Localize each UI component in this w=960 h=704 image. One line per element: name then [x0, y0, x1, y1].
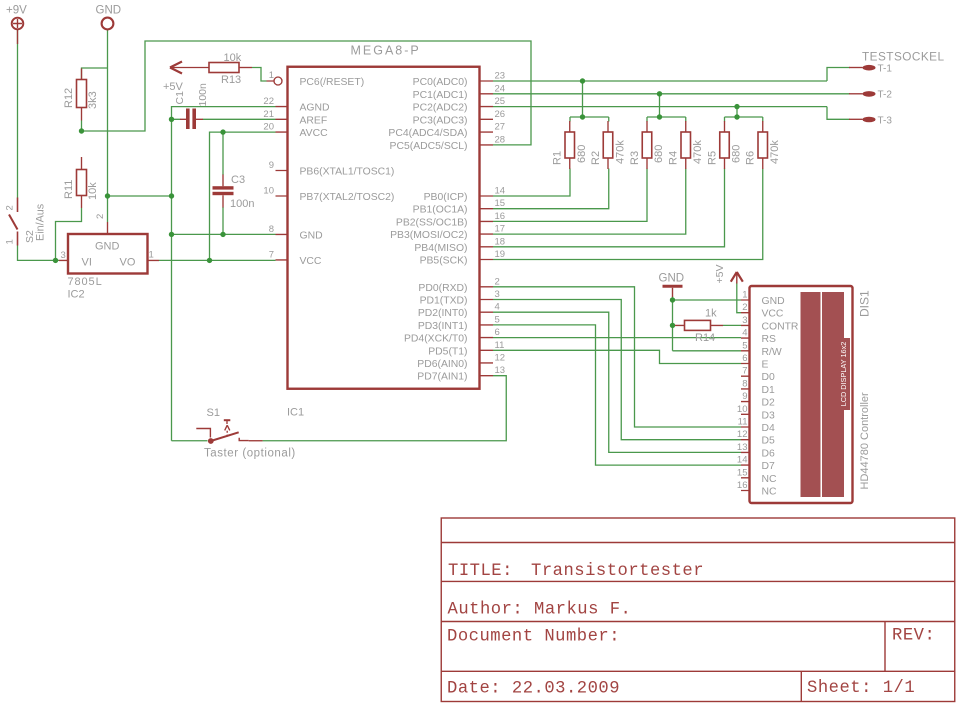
svg-text:3: 3	[61, 250, 66, 261]
svg-text:PC0(ADC0): PC0(ADC0)	[413, 77, 468, 88]
junction LCD GND R14	[670, 323, 675, 328]
wire net PD7 to S1	[263, 376, 507, 441]
svg-text:10: 10	[737, 404, 748, 415]
svg-text:1: 1	[269, 70, 274, 81]
svg-text:PD6(AIN0): PD6(AIN0)	[417, 359, 467, 370]
svg-text:TESTSOCKEL: TESTSOCKEL	[862, 50, 945, 64]
svg-text:Sheet: 1/1: Sheet: 1/1	[807, 679, 915, 698]
svg-text:PC4(ADC4/SDA): PC4(ADC4/SDA)	[388, 128, 467, 139]
wire C3 top to AVCC	[222, 132, 224, 175]
junction R5R6 top	[734, 114, 739, 119]
wire net PC0 T-1 with R1 R2 tops	[493, 68, 850, 209]
capacitor C1 100n	[186, 109, 196, 130]
svg-text:5: 5	[495, 314, 500, 325]
svg-text:21: 21	[263, 109, 274, 120]
svg-text:D1: D1	[762, 385, 776, 396]
svg-text:PD7(AIN1): PD7(AIN1)	[417, 372, 467, 383]
svg-text:VI: VI	[82, 257, 92, 269]
svg-text:26: 26	[495, 109, 506, 120]
svg-text:T-3: T-3	[878, 115, 893, 126]
wire net GND branch to x171	[108, 195, 172, 197]
svg-text:VCC: VCC	[762, 309, 784, 320]
resistor R1	[565, 121, 575, 169]
wire net GND vertical x171 down to S1	[172, 119, 208, 440]
svg-text:RS: RS	[762, 334, 777, 345]
svg-text:19: 19	[495, 249, 506, 260]
svg-text:CONTR: CONTR	[762, 321, 799, 332]
svg-text:DIS1: DIS1	[858, 290, 872, 317]
svg-text:24: 24	[495, 83, 506, 94]
svg-text:AVCC: AVCC	[300, 128, 329, 139]
junction AVCC on +5V rail	[207, 258, 212, 263]
svg-text:REV:: REV:	[892, 627, 935, 646]
svg-text:NC: NC	[762, 487, 778, 498]
svg-text:11: 11	[495, 340, 505, 351]
svg-text:13: 13	[495, 365, 506, 376]
svg-text:7: 7	[269, 249, 274, 260]
svg-text:10k: 10k	[87, 182, 99, 200]
svg-text:4: 4	[742, 328, 747, 339]
svg-text:R11: R11	[63, 180, 75, 199]
IC1 right pin stubs	[480, 81, 494, 376]
junction LCD GND pin1	[670, 297, 675, 302]
junction GND rail C3	[220, 232, 225, 237]
svg-text:R4: R4	[668, 151, 680, 165]
WIRES (green nets)	[18, 30, 851, 465]
svg-text:2: 2	[742, 302, 747, 313]
svg-text:16: 16	[737, 480, 748, 491]
wire net +5V AVCC branch	[159, 132, 276, 260]
resistor R2	[603, 121, 613, 169]
wire net AREF from cap C1 to IC	[203, 118, 276, 120]
svg-text:3k3: 3k3	[87, 91, 99, 109]
svg-text:7805L: 7805L	[68, 276, 103, 288]
junction PC1 wire v2	[657, 91, 662, 96]
resistor R6	[758, 121, 768, 169]
junction PC0 wire v1	[580, 78, 585, 83]
svg-text:GND: GND	[762, 296, 785, 307]
svg-text:18: 18	[495, 236, 506, 247]
IC1 left pin names	[300, 77, 395, 267]
svg-text:PC1(ADC1): PC1(ADC1)	[413, 90, 468, 101]
LCD display DIS1 box	[750, 286, 853, 503]
svg-text:PD3(INT1): PD3(INT1)	[418, 321, 468, 332]
pad T-3	[863, 117, 876, 123]
resistor R5	[720, 121, 730, 169]
svg-text:PC2(ADC2): PC2(ADC2)	[413, 103, 468, 114]
svg-text:680: 680	[576, 145, 588, 163]
capacitor C3 100n	[213, 186, 234, 195]
wire net PD1 to LCD D5	[493, 300, 741, 440]
svg-text:IC1: IC1	[287, 407, 304, 419]
wire net +9V vertical	[17, 30, 19, 198]
svg-text:MEGA8-P: MEGA8-P	[351, 44, 421, 58]
resistor R13	[209, 63, 252, 73]
svg-text:PC3(ADC3): PC3(ADC3)	[413, 115, 468, 126]
svg-text:AGND: AGND	[300, 103, 330, 114]
IC1 right pin numbers	[495, 71, 506, 377]
svg-text:23: 23	[495, 71, 506, 82]
svg-text:D6: D6	[762, 448, 776, 459]
svg-text:R5: R5	[707, 151, 719, 165]
svg-text:NC: NC	[762, 474, 778, 485]
svg-text:1: 1	[742, 290, 747, 301]
svg-text:T-1: T-1	[878, 64, 893, 75]
svg-text:10: 10	[263, 186, 274, 197]
LCD pin names	[762, 296, 799, 498]
svg-text:PB4(MISO): PB4(MISO)	[414, 243, 467, 254]
switch S2	[9, 198, 18, 246]
svg-text:2: 2	[5, 205, 16, 210]
svg-text:Author: Markus F.: Author: Markus F.	[448, 601, 632, 620]
junction AVCC/C3	[220, 129, 225, 134]
svg-text:PB1(OC1A): PB1(OC1A)	[413, 205, 468, 216]
junction S2/R11/VI	[53, 258, 58, 263]
svg-text:8: 8	[269, 224, 274, 235]
svg-text:1k: 1k	[705, 308, 717, 320]
svg-text:R6: R6	[745, 151, 757, 165]
svg-text:C3: C3	[231, 174, 245, 186]
resistor R14	[675, 320, 723, 330]
svg-text:680: 680	[653, 145, 665, 163]
svg-text:17: 17	[495, 224, 506, 235]
resistor R11	[77, 157, 87, 208]
svg-text:Transistortester: Transistortester	[531, 562, 704, 581]
IC1 left pin stubs	[267, 77, 288, 260]
svg-text:PD5(T1): PD5(T1)	[428, 346, 467, 357]
wire net GND at LCD	[673, 297, 742, 351]
svg-text:PB5(SCK): PB5(SCK)	[420, 256, 468, 267]
svg-text:TITLE:: TITLE:	[448, 562, 513, 581]
svg-text:R14: R14	[695, 332, 715, 344]
junction PC2 wire v3	[734, 104, 739, 109]
svg-text:R3: R3	[629, 151, 641, 165]
junction GND circle line y196	[105, 193, 110, 198]
wire net divider R12-R11 to PC5 pin28	[82, 41, 532, 145]
svg-text:VCC: VCC	[300, 256, 322, 267]
svg-text:D5: D5	[762, 436, 776, 447]
svg-text:1: 1	[5, 239, 16, 244]
svg-text:GND: GND	[659, 273, 685, 285]
svg-text:16: 16	[495, 211, 506, 222]
svg-text:GND: GND	[300, 230, 323, 241]
svg-text:R13: R13	[221, 74, 241, 86]
svg-text:D4: D4	[762, 423, 776, 434]
wire net PD0 to LCD D4	[493, 287, 741, 427]
wire net PD3 to LCD D7	[493, 325, 741, 465]
svg-text:R1: R1	[552, 151, 564, 165]
svg-text:+5V: +5V	[714, 265, 726, 284]
svg-text:100n: 100n	[197, 83, 209, 107]
supply +5V arrow (R13)	[170, 62, 209, 74]
wire net GND rail to IC1 pin8	[172, 233, 276, 235]
junction R3R4 top	[657, 114, 662, 119]
svg-text:4: 4	[495, 302, 500, 313]
wire net PD4 to LCD RS	[493, 337, 741, 339]
svg-text:3: 3	[495, 289, 500, 300]
IC1 right pin names	[388, 77, 467, 383]
svg-text:T-2: T-2	[878, 90, 893, 101]
svg-text:S1: S1	[207, 407, 220, 419]
wire net +5V to LCD VCC	[737, 283, 741, 313]
svg-text:100n: 100n	[230, 198, 254, 210]
resistor R12	[77, 69, 87, 121]
svg-text:E: E	[762, 360, 769, 371]
svg-text:PD1(TXD): PD1(TXD)	[420, 296, 468, 307]
svg-text:12: 12	[737, 429, 748, 440]
svg-text:D2: D2	[762, 398, 776, 409]
svg-text:7: 7	[742, 366, 747, 377]
LCD red bar left	[801, 292, 821, 497]
svg-text:11: 11	[738, 417, 748, 428]
svg-text:PB7(XTAL2/TOSC2): PB7(XTAL2/TOSC2)	[300, 192, 395, 203]
svg-text:9: 9	[269, 160, 274, 171]
svg-text:D3: D3	[762, 410, 776, 421]
svg-text:Document Number:: Document Number:	[447, 628, 620, 647]
wire net PC2 T-3 with R5 R6 tops	[493, 107, 850, 260]
svg-text:15: 15	[495, 198, 506, 209]
junction AGND/C1	[169, 117, 174, 122]
svg-text:12: 12	[495, 352, 506, 363]
supply +5V arrow at LCD	[731, 272, 743, 284]
wire net S2 to 7805 VI and R11 bottom	[18, 208, 82, 260]
wire net RESET R13 to pin1	[252, 68, 267, 82]
svg-text:R12: R12	[63, 88, 75, 108]
switch S1 Taster	[196, 420, 262, 441]
junction GND x171/y196	[169, 193, 174, 198]
svg-text:6: 6	[742, 353, 747, 364]
svg-text:AREF: AREF	[300, 115, 328, 126]
svg-text:PC5(ADC5/SCL): PC5(ADC5/SCL)	[390, 141, 468, 152]
svg-text:2: 2	[495, 276, 500, 287]
svg-text:6: 6	[495, 327, 500, 338]
wire net PD2 to LCD D6	[493, 312, 741, 452]
junction GND rail x171	[169, 232, 174, 237]
svg-text:PC6(/RESET): PC6(/RESET)	[300, 77, 365, 88]
wire net PD5 to LCD E	[493, 350, 741, 363]
svg-text:PB3(MOSI/OC2): PB3(MOSI/OC2)	[390, 230, 467, 241]
svg-text:Date: 22.03.2009: Date: 22.03.2009	[447, 680, 620, 699]
svg-text:PB0(ICP): PB0(ICP)	[424, 192, 468, 203]
svg-text:IC2: IC2	[68, 289, 85, 301]
svg-text:PD0(RXD): PD0(RXD)	[418, 283, 467, 294]
svg-text:3: 3	[742, 315, 747, 326]
wire net GND top circle down to IC2 pin2	[107, 30, 109, 222]
svg-text:VO: VO	[120, 257, 136, 269]
pad T-1	[863, 65, 876, 71]
svg-text:R/W: R/W	[762, 347, 782, 358]
svg-text:470k: 470k	[615, 140, 627, 164]
svg-text:HD44780 Controller: HD44780 Controller	[859, 392, 871, 490]
svg-text:R2: R2	[590, 151, 602, 165]
supply +9V symbol	[12, 18, 24, 44]
resistor R3	[642, 121, 652, 169]
svg-text:13: 13	[737, 442, 748, 453]
svg-text:PD4(XCK/T0): PD4(XCK/T0)	[404, 334, 468, 345]
svg-text:10k: 10k	[224, 52, 242, 64]
svg-text:C1: C1	[174, 91, 186, 105]
svg-text:15: 15	[737, 467, 748, 478]
LCD pin numbers	[737, 290, 748, 492]
microcontroller IC1 MEGA8-P	[288, 67, 480, 389]
ground GND symbol at LCD	[663, 286, 683, 297]
svg-text:9: 9	[742, 391, 747, 402]
wire C3 bottom to GND rail	[222, 207, 224, 234]
svg-text:GND: GND	[96, 5, 122, 17]
IC1 left pin numbers	[263, 70, 274, 260]
svg-text:D0: D0	[762, 372, 776, 383]
svg-text:Taster (optional): Taster (optional)	[204, 448, 296, 460]
svg-text:14: 14	[737, 455, 748, 466]
title block frame	[441, 518, 955, 702]
svg-text:PB6(XTAL1/TOSC1): PB6(XTAL1/TOSC1)	[300, 167, 395, 178]
svg-text:GND: GND	[95, 241, 120, 253]
svg-text:+9V: +9V	[6, 5, 27, 17]
wire R12 top to GND line	[82, 68, 108, 79]
svg-text:680: 680	[731, 145, 743, 163]
svg-text:PB2(SS/OC1B): PB2(SS/OC1B)	[396, 217, 468, 228]
svg-text:D7: D7	[762, 461, 776, 472]
svg-text:470k: 470k	[692, 140, 704, 164]
wire net AGND from IC down to cap C1	[172, 107, 276, 120]
svg-text:Ein/Aus: Ein/Aus	[35, 203, 47, 241]
svg-text:20: 20	[263, 122, 274, 133]
wire net PC1 T-2 with R3 R4 tops	[493, 94, 850, 234]
svg-text:LCD DISPLAY 16x2: LCD DISPLAY 16x2	[839, 342, 848, 407]
pad T-2	[863, 91, 876, 97]
svg-text:5: 5	[742, 340, 747, 351]
resistor R4	[681, 121, 691, 169]
junction R1R2 top	[580, 114, 585, 119]
wire net R14 to LCD CONTR	[673, 324, 742, 326]
svg-text:470k: 470k	[769, 140, 781, 164]
svg-text:2: 2	[95, 214, 106, 219]
LCD pin stubs	[741, 300, 750, 491]
svg-text:22: 22	[263, 96, 274, 107]
LCD red bar right	[822, 292, 844, 497]
svg-text:PD2(INT0): PD2(INT0)	[418, 308, 468, 319]
voltage regulator IC2 7805L	[59, 222, 159, 274]
LCD text strip	[841, 338, 851, 410]
svg-text:8: 8	[742, 378, 747, 389]
svg-text:27: 27	[495, 122, 506, 133]
svg-text:1: 1	[149, 250, 154, 261]
ground GND top symbol	[102, 18, 114, 30]
svg-text:25: 25	[495, 96, 506, 107]
junction R12-R11 divider	[79, 128, 84, 133]
svg-text:14: 14	[495, 186, 506, 197]
svg-text:28: 28	[495, 134, 506, 145]
